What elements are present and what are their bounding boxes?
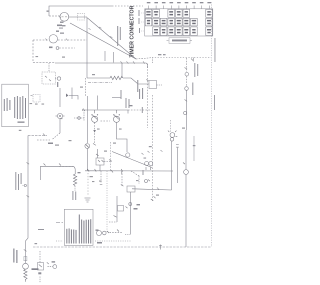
tick on bottom border: [159, 245, 162, 250]
left mid wires: [59, 88, 61, 107]
bus continue: [86, 149, 88, 172]
wire diagonal to motor area: [112, 152, 152, 168]
dashed box on wire: [78, 14, 85, 21]
buzzer label: [57, 82, 58, 87]
wash label: [192, 83, 193, 96]
label cluster 5B: [60, 22, 64, 23]
lid switch S1: [92, 116, 98, 122]
label P: [49, 47, 53, 49]
wire to timer motor: [49, 15, 60, 17]
start switch: [48, 266, 53, 268]
svg-text:TIMER CONNECTOR: TIMER CONNECTOR: [130, 5, 136, 57]
lid switch bus y110: [84, 109, 128, 111]
right margin part number: [214, 38, 217, 62]
connector sub box: [169, 38, 190, 44]
border bottom: [33, 246, 211, 248]
node stubs on bus y63: [121, 61, 145, 63]
wire dashed y40 left: [33, 39, 49, 41]
pump labels: [72, 191, 73, 200]
node ticks y40: [46, 39, 68, 41]
main bus y166 left: [41, 166, 74, 180]
switch box A: [42, 72, 56, 84]
start capacitor pair: [145, 162, 149, 166]
wire dashed y40 right: [58, 39, 87, 41]
small comp x40: [39, 251, 41, 263]
stub x122: [121, 63, 123, 78]
bottom mid cluster: [97, 231, 102, 236]
misc wires left of bus: [71, 88, 73, 100]
wire labels left of grid: [139, 10, 140, 16]
grid top ticks: [149, 6, 210, 9]
label vertical: [13, 249, 14, 263]
dotted vertical x107: [106, 171, 108, 232]
main bus y63: [33, 62, 55, 64]
grid outer frame: [145, 9, 213, 36]
wire dash-dot y82.5: [88, 82, 112, 84]
main bus y171 right: [85, 170, 173, 172]
stub x105: [104, 51, 106, 61]
wire diagonal tail: [136, 58, 152, 59]
wire coil to right: [123, 78, 149, 84]
left labels: [14, 172, 17, 190]
connector node: [126, 153, 130, 157]
coil R1: [110, 76, 123, 79]
wire y97.4: [112, 96, 121, 98]
tick x83: [82, 109, 84, 111]
small dash left of legend2: [56, 222, 63, 224]
water temp branch x186: [186, 58, 188, 72]
border right: [210, 2, 212, 247]
timer motor TM: [60, 12, 69, 21]
wire dashed between switches: [101, 120, 111, 122]
thermal fuse: [23, 263, 29, 269]
wire S2 down L-path: [117, 123, 128, 153]
small label near box2: [38, 229, 44, 230]
bus node circle: [85, 144, 90, 149]
wire diagonal D2: [70, 23, 136, 59]
aux vertical x194: [193, 136, 195, 161]
water temp switch label: [194, 63, 195, 77]
wire from TM to bus x87: [69, 16, 87, 18]
unbalance lamp: [49, 35, 57, 43]
small dashed box D: [33, 95, 40, 103]
timer connector grid: [145, 9, 212, 35]
component on x186: [184, 170, 189, 175]
pilot node: [56, 47, 59, 50]
small box B: [149, 81, 157, 89]
wire dashed vertical x33: [32, 40, 34, 63]
coil L3: [24, 269, 27, 281]
coil feed curve: [73, 166, 75, 174]
vertical labels mid: [15, 38, 215, 230]
buzzer: [57, 77, 60, 80]
right dashed vertical x152: [152, 95, 154, 202]
lid switch S2: [113, 116, 119, 122]
legend box 1: [2, 84, 29, 127]
motor leads: [176, 145, 179, 148]
small relay contact: [145, 180, 148, 183]
wire top bus: [49, 6, 112, 16]
wire y78 to heater coil: [87, 77, 110, 79]
motor M1: [170, 120, 172, 132]
stub x113.5: [113, 52, 115, 63]
vertical label left of timer: [117, 26, 118, 46]
tick: [111, 170, 113, 172]
extra mid-right detail: [110, 142, 112, 171]
label 4: [47, 11, 49, 12]
comp box C: [127, 186, 135, 192]
plug P1: [57, 113, 62, 118]
coil L2 vertical: [73, 174, 76, 186]
wire S1 down: [94, 123, 96, 145]
stub left x84: [83, 110, 85, 121]
lower mid components: [116, 196, 118, 222]
label 3B: [57, 25, 62, 27]
wire y190: [132, 189, 172, 190]
dotted y241: [56, 240, 63, 242]
pressure switch box: [96, 158, 104, 165]
legend box 2: [64, 209, 98, 245]
vertical bus x87: [86, 17, 88, 78]
wire diagonal D1: [88, 18, 137, 59]
wire dashed from pilot: [59, 47, 75, 49]
label 5: [56, 31, 59, 32]
stub x101: [100, 171, 102, 183]
ground: [85, 198, 91, 202]
misc tiny labels: [19, 56, 185, 196]
stub bus to box A: [48, 63, 50, 72]
connector on bus: [74, 117, 84, 119]
